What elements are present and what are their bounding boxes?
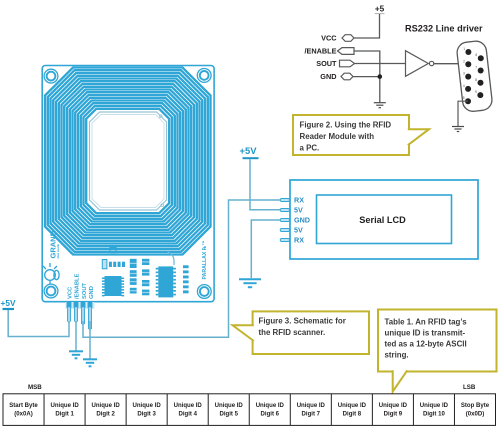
callout Table 1 box [378,310,497,372]
coil end trace hook [168,252,175,266]
wire DB9 pin5 to ground [458,101,468,126]
wire SOUT to inverter [355,63,406,65]
resistor row R1-R4 [109,262,125,267]
header pads P1-P4 [67,302,93,309]
DB9 pin 1 [465,49,471,55]
svg-text:the RFID scanner.: the RFID scanner. [259,328,326,337]
callout Figure 2 box [293,115,409,155]
svg-text:8: 8 [475,78,477,82]
svg-text:Digit 6: Digit 6 [261,412,280,418]
mounting hole H3 [44,284,58,298]
svg-text:SOUT: SOUT [82,282,88,299]
svg-text:+5V: +5V [240,145,258,156]
DB9 pin 2 [465,61,471,67]
wire +5V to LCD 5V pin [250,159,281,210]
LCD pin 1 RX [280,199,289,202]
svg-text:5: 5 [463,96,465,100]
via top-right [159,115,162,118]
Serial LCD screen rect [317,195,452,244]
ground symbol (RS232) [374,103,386,108]
svg-text:3: 3 [463,72,465,76]
ground symbol (scanner GND) [83,359,97,366]
svg-text:RX: RX [294,236,304,245]
svg-text:/ENABLE: /ENABLE [75,273,81,299]
callout Figure 2 tail [408,129,429,145]
svg-text:Digit 2: Digit 2 [96,412,115,418]
coil antenna L1 (spiral loops) [45,68,211,255]
svg-text:Unique ID: Unique ID [379,403,408,409]
svg-text:a PC.: a PC. [300,144,320,153]
DB9 pin 7 [478,68,484,74]
RFID reader module board outline [42,66,214,302]
ID data table [3,394,496,426]
wire /ENABLE pin to ground [75,321,77,351]
svg-text:MSB: MSB [28,384,42,391]
component column A [130,259,137,294]
svg-text:2: 2 [463,59,465,63]
header pins (light) [69,309,90,330]
component column C [183,265,189,293]
svg-text:Figure 3. Schematic for: Figure 3. Schematic for [259,317,346,326]
svg-text:(0x0D): (0x0D) [466,412,484,418]
wire +5 to VCC [354,14,380,38]
svg-text:Digit 1: Digit 1 [55,412,74,418]
wire GND to ground rail [353,76,380,78]
svg-text:+5: +5 [375,5,385,14]
svg-text:5V: 5V [294,226,303,235]
DB9 pin 4 [465,86,471,92]
svg-text:Stop Byte: Stop Byte [461,403,490,409]
inverter bubble [429,61,433,65]
wire /ENABLE to ground rail [354,51,380,103]
ground symbol (DB9) [452,127,464,132]
svg-text:GND: GND [89,286,95,299]
callout Figure 3 box [253,311,369,354]
svg-text:6: 6 [475,53,477,57]
svg-text:5V: 5V [294,206,303,215]
svg-text:/ENABLE: /ENABLE [304,47,336,56]
callout Table 1 tail [393,370,408,391]
svg-text:unique ID is transmit-: unique ID is transmit- [385,329,466,338]
callout Figure 3 tail [233,325,254,341]
LCD pin 2 5V [280,209,289,212]
wire +5V to VCC pin [8,310,69,337]
svg-text:(0x0A): (0x0A) [14,412,32,418]
svg-text:VCC: VCC [68,286,74,299]
svg-text:Table 1. An RFID tag’s: Table 1. An RFID tag’s [385,318,468,327]
coil center window outline [90,112,167,210]
+5V rail bar (LCD) [243,157,259,159]
svg-text:ted as a 12-byte ASCII: ted as a 12-byte ASCII [385,340,467,349]
DB9 connector J1 body [456,40,493,112]
svg-text:Digit 10: Digit 10 [423,412,445,418]
svg-text:Unique ID: Unique ID [338,403,367,409]
svg-text:Unique ID: Unique ID [297,403,326,409]
component C1 (outlined part) [102,260,107,269]
svg-text:RX: RX [294,196,304,205]
svg-text:LSB: LSB [463,384,476,391]
wire GND pin to ground [89,321,91,359]
svg-text:9: 9 [475,90,477,94]
svg-text:Unique ID: Unique ID [420,403,449,409]
wire SOUT to LCD RX [83,200,281,337]
svg-text:Serial LCD: Serial LCD [359,215,406,225]
DB9 pin 5 [465,98,471,104]
svg-text:VCC: VCC [321,34,337,43]
ground symbol (scanner /ENABLE) [69,351,83,358]
svg-text:PARALLAX ℞™: PARALLAX ℞™ [202,240,208,279]
junction node [378,74,383,79]
+5V rail bar (scanner) [3,308,15,310]
svg-text:Unique ID: Unique ID [50,403,79,409]
header pad strip [66,302,95,309]
svg-text:Digit 7: Digit 7 [302,412,321,418]
svg-text:Digit 9: Digit 9 [384,412,403,418]
svg-text:7: 7 [475,66,477,70]
mounting hole H2 [197,69,211,83]
svg-text:Reader Module with: Reader Module with [300,132,375,141]
svg-text:Unique ID: Unique ID [91,403,120,409]
mounting hole H4 [197,285,211,299]
svg-text:RS232 Line driver: RS232 Line driver [405,24,483,34]
coil window inner line [92,115,164,208]
svg-text:+5V: +5V [1,298,16,308]
svg-text:Unique ID: Unique ID [132,403,161,409]
LCD pin 3 GND [280,219,289,222]
IC U2 (SOIC-16) [156,266,176,297]
wire LCD GND to ground [251,220,281,278]
svg-text:string.: string. [385,351,409,360]
svg-text:Digit 4: Digit 4 [178,412,197,418]
+5 rail tick [375,13,385,15]
svg-text:GND: GND [320,72,336,81]
via bottom-right [161,204,164,207]
svg-text:Digit 5: Digit 5 [219,412,238,418]
DB9 pin 6 [478,55,484,61]
ground symbol (LCD GND) [239,279,261,287]
Serial LCD module box [290,180,478,259]
svg-text:1: 1 [463,47,465,51]
svg-text:Digit 3: Digit 3 [137,412,156,418]
mounting hole H1 [44,69,58,83]
LCD pin 4 5V [280,229,289,232]
svg-text:Unique ID: Unique ID [215,403,244,409]
DB9 pin 9 [477,92,483,98]
svg-text:SOUT: SOUT [316,59,337,68]
svg-text:Digit 8: Digit 8 [343,412,362,418]
svg-text:4: 4 [463,84,465,88]
inverter U3 [406,51,429,77]
svg-text:Unique ID: Unique ID [256,403,285,409]
svg-text:Unique ID: Unique ID [174,403,203,409]
DB9 pin 8 [478,80,484,86]
Grand Idea Studio logo [43,263,59,284]
svg-text:Figure 2. Using the RFID: Figure 2. Using the RFID [300,121,392,130]
component column B [142,259,149,296]
bracket mark [110,248,116,253]
LCD pin 5 RX [280,239,289,242]
DB9 pin 3 [465,74,471,80]
wire inverter to DB9 pin2 [434,63,468,65]
svg-text:idea studio: idea studio [56,243,60,258]
svg-text:Start Byte: Start Byte [9,403,38,409]
IC U1 (SOIC-14) [102,276,124,296]
svg-text:GND: GND [294,216,310,225]
